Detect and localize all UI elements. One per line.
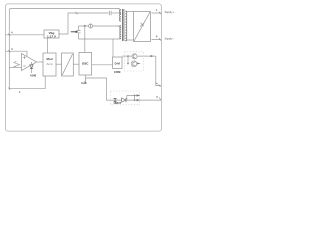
- svg-text:fosc: fosc: [81, 81, 87, 85]
- svg-text:COM: COM: [114, 70, 121, 74]
- svg-text:Supply +: Supply +: [165, 10, 176, 14]
- svg-text:Mod: Mod: [47, 57, 53, 61]
- svg-text:Amp: Amp: [47, 62, 53, 66]
- svg-text:OSC: OSC: [82, 61, 89, 65]
- svg-text:1.17 V: 1.17 V: [47, 35, 57, 39]
- svg-text:4148: 4148: [30, 74, 36, 78]
- svg-text:Supply -: Supply -: [165, 37, 175, 41]
- svg-text:D-M: D-M: [115, 62, 121, 66]
